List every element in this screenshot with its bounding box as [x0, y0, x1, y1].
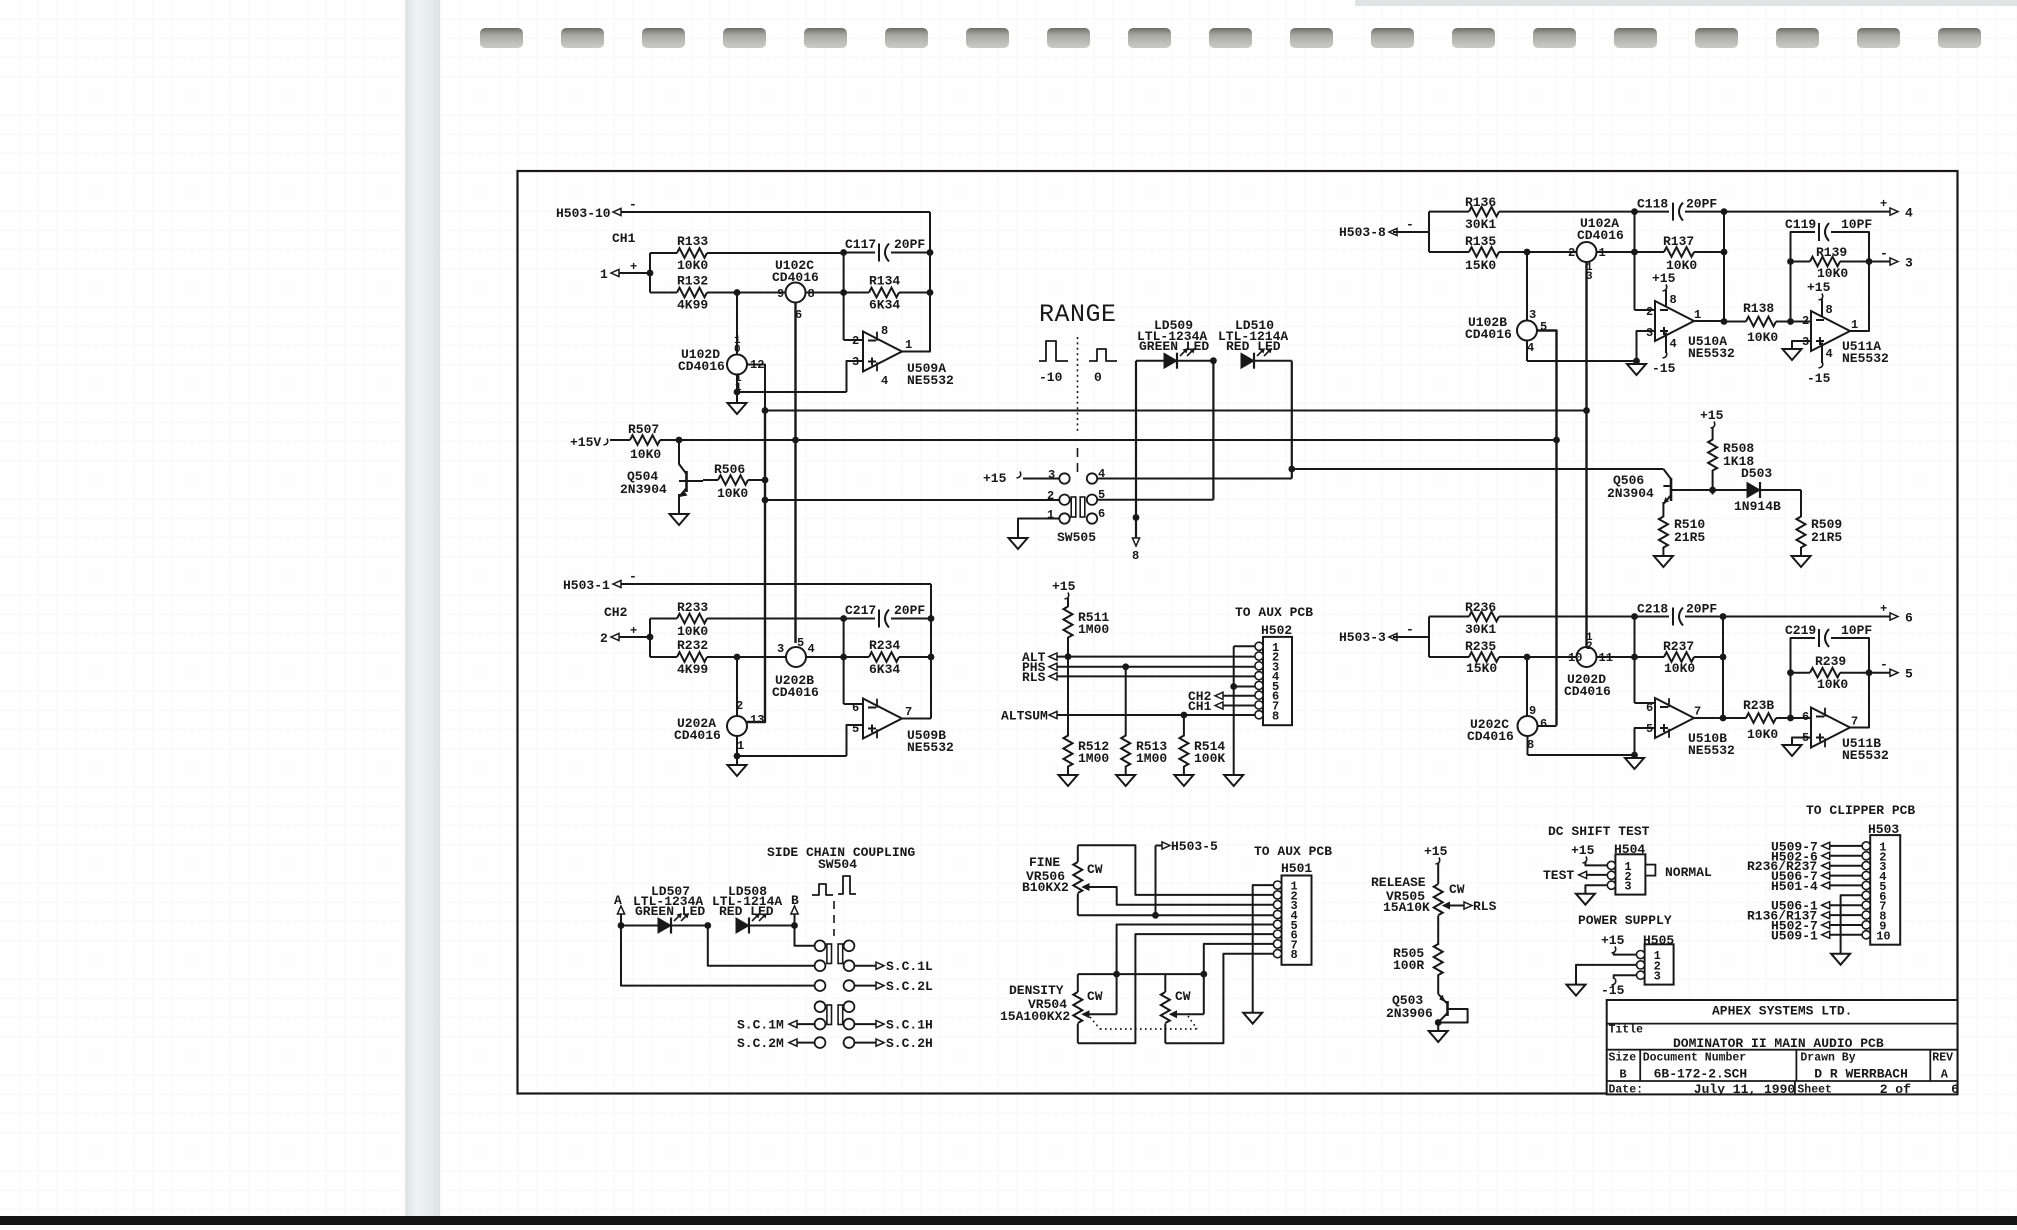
svg-text:3: 3 [1905, 256, 1913, 271]
svg-text:A: A [1941, 1068, 1949, 1082]
svg-text:S.C.2H: S.C.2H [886, 1036, 933, 1051]
svg-text:10K0: 10K0 [677, 624, 708, 639]
resistor R235 [1429, 639, 1527, 676]
junction R137 right [1721, 249, 1728, 256]
svg-text:S.C.2L: S.C.2L [886, 979, 933, 994]
junction C218 left [1631, 613, 1638, 620]
gang dotted link [1090, 1016, 1197, 1029]
net +15 H505 [1601, 933, 1625, 953]
svg-text:NE5532: NE5532 [1842, 351, 1889, 366]
wire U202C pin9 [1526, 657, 1528, 716]
junction +15 rail at U102C [792, 437, 799, 444]
svg-text:R232: R232 [677, 638, 708, 653]
svg-text:R137: R137 [1663, 234, 1694, 249]
LED LD507 [621, 913, 708, 934]
ground R512 [1059, 775, 1078, 786]
svg-text:5: 5 [797, 636, 804, 650]
wire U510B output [1694, 717, 1723, 719]
wire VR504 wiper [1090, 1013, 1117, 1015]
resistor R233 [650, 600, 844, 639]
svg-text:TO AUX PCB: TO AUX PCB [1254, 844, 1332, 859]
svg-text:7: 7 [905, 705, 912, 719]
junction C117 right [927, 249, 934, 256]
svg-text:1M00: 1M00 [1136, 751, 1167, 766]
wire H505 pin1 [1614, 952, 1638, 955]
svg-text:10: 10 [1876, 929, 1890, 943]
svg-text:H503-8: H503-8 [1339, 225, 1386, 240]
svg-text:-: - [1406, 622, 1414, 637]
output node 5 [1880, 657, 1913, 682]
svg-text:Date:: Date: [1609, 1084, 1644, 1097]
wire U202C pin8 to gnd wire [1527, 736, 1529, 756]
op-amp U510B [1646, 698, 1735, 758]
junction R239 left [1787, 669, 1794, 676]
input node 2 [600, 624, 650, 646]
svg-text:-15: -15 [1601, 983, 1625, 998]
wire U202C pin6 [1538, 725, 1557, 727]
junction A [618, 922, 625, 929]
LED LD510 [1241, 348, 1292, 369]
ground U511A [1783, 349, 1802, 360]
svg-text:+15: +15 [1700, 408, 1724, 423]
net R236/R237 [1747, 859, 1863, 874]
pulse symbol small [812, 884, 833, 895]
svg-text:10K0: 10K0 [1747, 330, 1778, 345]
svg-text:S.C.1L: S.C.1L [886, 959, 933, 974]
wire bus 410 [765, 410, 1587, 412]
ground H504 [1576, 894, 1595, 905]
svg-text:7: 7 [1851, 715, 1858, 729]
junction R234 left [840, 654, 847, 661]
svg-text:10K0: 10K0 [677, 258, 708, 273]
wire to output 3 [1869, 261, 1890, 263]
svg-text:FINE: FINE [1029, 855, 1060, 870]
wire H505 pin2 gnd [1576, 965, 1637, 985]
wire H502 pin1 [1234, 645, 1256, 647]
wire U102B pin5 [1537, 331, 1557, 726]
junction R237 left [1631, 654, 1638, 661]
junction R132/U102D [734, 289, 741, 296]
net S.C.1M [737, 1018, 815, 1033]
net H502-7 [1771, 918, 1863, 933]
svg-text:4: 4 [1527, 341, 1534, 355]
svg-text:2: 2 [852, 334, 859, 348]
junction C119 left leg [1787, 318, 1794, 325]
resistor R135 [1429, 234, 1527, 273]
svg-text:C217: C217 [845, 603, 876, 618]
capacitor C218 [1635, 602, 1724, 626]
svg-text:8: 8 [1272, 709, 1279, 723]
svg-text:5: 5 [1098, 488, 1105, 502]
svg-text:C118: C118 [1637, 197, 1668, 212]
svg-text:4: 4 [1905, 206, 1913, 221]
resistor R136 [1429, 195, 1635, 232]
svg-text:NE5532: NE5532 [907, 373, 954, 388]
ground U511B [1783, 745, 1802, 756]
svg-text:10K0: 10K0 [630, 447, 661, 462]
net CH1 to H502-7 [1188, 699, 1256, 714]
analog switch U202A [674, 699, 764, 753]
net U506-1 [1771, 899, 1863, 914]
wire noninv U511B [1792, 738, 1811, 746]
connector H502 [1255, 623, 1293, 725]
svg-text:B10KX2: B10KX2 [1022, 880, 1069, 895]
input node 1 [600, 260, 650, 282]
resistor R506 [703, 462, 765, 501]
wire ALTSUM-R514 vertical [1183, 715, 1185, 736]
svg-text:+15: +15 [1424, 844, 1448, 859]
svg-text:6: 6 [1905, 611, 1913, 626]
svg-text:H503-5: H503-5 [1171, 839, 1218, 854]
svg-text:+15: +15 [1052, 579, 1076, 594]
svg-text:+: + [630, 260, 637, 274]
svg-text:15K0: 15K0 [1465, 258, 1496, 273]
svg-text:1N914B: 1N914B [1734, 499, 1781, 514]
svg-text:R23B: R23B [1743, 698, 1774, 713]
wire C118 to inv input [1634, 212, 1636, 310]
net H503-3 label [1339, 622, 1414, 645]
svg-text:H502: H502 [1261, 623, 1292, 638]
junction Q506 base/R508 [1709, 487, 1716, 494]
analog switch U102B [1465, 308, 1547, 355]
svg-text:R507: R507 [628, 422, 659, 437]
svg-text:+15: +15 [1652, 271, 1676, 286]
wire D503 to R509 [1800, 490, 1802, 517]
svg-text:6K34: 6K34 [869, 662, 900, 677]
svg-text:R139: R139 [1816, 245, 1847, 260]
svg-text:NORMAL: NORMAL [1665, 865, 1712, 880]
svg-text:8: 8 [881, 324, 888, 338]
wire SW505 pin1 [1018, 519, 1060, 539]
wire H503 pin6 gnd [1841, 895, 1863, 953]
net -15 H505 [1601, 975, 1637, 998]
wire Q506 base [1671, 489, 1713, 491]
wire +15 rail [679, 439, 1557, 441]
wire H503-10 to feedback [621, 211, 930, 213]
wire U510A output [1694, 320, 1724, 322]
ground U510B [1625, 758, 1644, 769]
svg-text:8: 8 [1291, 948, 1298, 962]
wire U102D pin12 [747, 365, 765, 411]
resistor R237 [1635, 639, 1724, 676]
junction LD507/LD508 [704, 922, 711, 929]
svg-text:3: 3 [1624, 880, 1631, 894]
svg-text:-15: -15 [1652, 361, 1676, 376]
svg-text:2: 2 [600, 631, 608, 646]
resistor R137 [1635, 234, 1725, 273]
svg-text:8: 8 [808, 287, 815, 301]
wire noninv U510A [1637, 331, 1656, 361]
connector H505 [1637, 933, 1675, 985]
wire U202D out [1597, 656, 1635, 658]
svg-text:10PF: 10PF [1841, 217, 1872, 232]
svg-text:H501: H501 [1281, 861, 1312, 876]
resistor R238 [1723, 698, 1791, 742]
LED LD509 [1136, 348, 1213, 369]
wire H501 pin7 drop [1204, 944, 1274, 1014]
wire U102A in [1527, 251, 1577, 253]
ground H505 [1567, 985, 1586, 996]
wire U102C out [806, 292, 844, 294]
ground Q503 [1429, 1023, 1448, 1043]
junction R234 right [928, 654, 935, 661]
svg-text:RANGE: RANGE [1039, 300, 1117, 329]
wire input stub [649, 253, 651, 293]
wire ALT to H502-2 [1057, 656, 1256, 658]
wire U202B out [806, 656, 844, 658]
svg-text:4: 4 [1098, 467, 1105, 481]
svg-text:C218: C218 [1637, 602, 1668, 617]
junction bus A top [762, 407, 769, 414]
svg-text:-15: -15 [1807, 371, 1831, 386]
connector H504 [1607, 842, 1655, 895]
svg-text:20PF: 20PF [1686, 602, 1717, 617]
wire noninv U510B [1635, 728, 1656, 755]
wire PHS-R513 vertical [1125, 667, 1127, 737]
wire R138 to U511A [1791, 321, 1812, 323]
svg-text:21R5: 21R5 [1674, 530, 1705, 545]
ground U202A [728, 756, 747, 776]
wire SW505 pin4 [1097, 478, 1292, 480]
dashed divider lower [1077, 448, 1079, 476]
junction C219 left leg [1787, 715, 1794, 722]
svg-text:-10: -10 [1039, 370, 1063, 385]
wire H502 pin5 [1234, 686, 1256, 688]
svg-text:SW505: SW505 [1057, 530, 1096, 545]
svg-text:Title: Title [1609, 1024, 1644, 1037]
wire gnd to noninv [737, 391, 847, 393]
resistor R236 [1429, 600, 1635, 637]
ground R514 [1174, 775, 1193, 786]
LED LD507 labels [633, 884, 705, 919]
resistor R132 [650, 274, 786, 313]
junction U102D gnd [734, 389, 741, 396]
ground R510 [1654, 556, 1673, 567]
wire U102B pin3 [1526, 252, 1528, 321]
svg-text:20PF: 20PF [894, 237, 925, 252]
wire input stub 2 [649, 619, 651, 658]
svg-text:R136: R136 [1465, 195, 1496, 210]
wire U102A out [1597, 251, 1635, 253]
svg-text:H501-4: H501-4 [1771, 879, 1818, 894]
resistor R234 [844, 638, 931, 677]
junction R232/U202A [734, 654, 741, 661]
wire U102D bottom [736, 375, 738, 393]
junction C117 left [840, 249, 847, 256]
wire R511-R512 vertical [1067, 657, 1069, 737]
net +15V label [570, 435, 608, 450]
svg-text:S.C.2M: S.C.2M [737, 1036, 784, 1051]
svg-text:3: 3 [777, 642, 784, 656]
svg-text:R235: R235 [1465, 639, 1496, 654]
svg-text:10K0: 10K0 [1664, 661, 1695, 676]
capacitor C217 [844, 603, 931, 628]
svg-text:1: 1 [905, 338, 912, 352]
diode D503 [1713, 466, 1801, 514]
net H501-4 [1771, 879, 1863, 894]
svg-text:+15: +15 [983, 471, 1007, 486]
junction input 2 [647, 634, 654, 641]
net U509-1 [1771, 928, 1863, 943]
svg-text:21R5: 21R5 [1811, 530, 1842, 545]
svg-text:-: - [1406, 217, 1414, 232]
svg-text:10K0: 10K0 [1817, 677, 1848, 692]
svg-text:D R WERRBACH: D R WERRBACH [1814, 1067, 1908, 1082]
pot VR506 [1073, 845, 1103, 915]
junction U510A out [1721, 318, 1728, 325]
junction PHS/R513 [1122, 663, 1129, 670]
ground H502 [1224, 775, 1243, 786]
wire output to feedback [902, 293, 930, 352]
analog switch U202B [772, 636, 819, 700]
svg-text:+15V: +15V [570, 435, 601, 450]
svg-text:8: 8 [1527, 738, 1534, 752]
wire inv input U509B [844, 703, 863, 705]
svg-text:CD4016: CD4016 [1577, 228, 1624, 243]
svg-text:July 11, 1990: July 11, 1990 [1694, 1082, 1796, 1097]
svg-text:7: 7 [1694, 705, 1701, 719]
net S.C.1L [855, 959, 934, 974]
svg-text:2: 2 [1802, 314, 1809, 328]
wire LED left drop [1135, 361, 1137, 518]
svg-text:8: 8 [1132, 549, 1139, 563]
wire H502 gnd vertical [1233, 646, 1235, 775]
svg-text:R234: R234 [869, 638, 900, 653]
net +15 R511 [1052, 579, 1076, 599]
svg-text:Sheet: Sheet [1797, 1084, 1832, 1097]
wire SW505 pin5 [1097, 499, 1213, 501]
svg-text:S.C.1H: S.C.1H [886, 1018, 933, 1033]
ground U510A [1627, 364, 1646, 375]
svg-text:6: 6 [1098, 507, 1105, 521]
output node 3 [1880, 246, 1913, 271]
svg-text:C219: C219 [1785, 623, 1816, 638]
svg-text:4K99: 4K99 [677, 298, 708, 313]
resistor R134 [844, 274, 930, 313]
svg-text:DENSITY: DENSITY [1009, 983, 1064, 998]
svg-text:CD4016: CD4016 [674, 728, 721, 743]
resistor R510 [1659, 517, 1706, 557]
svg-text:R236: R236 [1465, 600, 1496, 615]
wire VR506 wiper to H501-3 [1090, 887, 1274, 905]
junction H503-5 drop [1152, 912, 1159, 919]
net R136/R137 [1747, 909, 1863, 924]
wire inv input U510B [1635, 702, 1656, 704]
svg-text:CW: CW [1175, 989, 1191, 1004]
svg-text:C117: C117 [845, 237, 876, 252]
wire U102B pin4 to gnd wire [1526, 341, 1528, 362]
pot VR504 second gang [1161, 974, 1191, 1043]
wire H503-1 to feedback [621, 583, 931, 585]
junction bus410 right end [1583, 407, 1590, 414]
net 8 down-arrow [1132, 518, 1140, 564]
capacitor C118 [1635, 197, 1725, 221]
svg-text:+: + [1880, 602, 1887, 616]
ground SW505 [1009, 538, 1028, 549]
wire output U509B to feedback [902, 718, 931, 720]
wire noninv input [847, 361, 864, 392]
capacitor C117 [844, 237, 930, 262]
dashed divider SW504 [833, 901, 835, 936]
svg-text:6: 6 [1802, 710, 1809, 724]
svg-text:CD4016: CD4016 [1465, 327, 1512, 342]
capacitor C219 [1785, 623, 1872, 718]
analog switch U202D [1564, 632, 1613, 699]
wire ALTSUM to H502-8 [1057, 714, 1256, 716]
wire VR506 top to H501-2 [1078, 845, 1274, 895]
svg-text:1: 1 [737, 739, 744, 753]
resistor R511 [1064, 598, 1110, 657]
svg-text:C119: C119 [1785, 217, 1816, 232]
svg-text:13: 13 [750, 713, 764, 727]
svg-text:H503-1: H503-1 [563, 578, 610, 593]
wire U202A pin13 [747, 500, 765, 722]
svg-text:S.C.1M: S.C.1M [737, 1018, 784, 1033]
wire H501 pin5 drop [1117, 925, 1274, 1015]
wire U202A bottom [736, 736, 738, 756]
svg-text:10K0: 10K0 [717, 486, 748, 501]
net S.C.2M [737, 1036, 815, 1051]
wire gnd to noninv 2 [737, 755, 847, 757]
svg-text:15A100KX2: 15A100KX2 [1000, 1009, 1070, 1024]
net +15 U511A [1807, 280, 1833, 320]
junction +15rail/U102B5 [1553, 437, 1560, 444]
wire LED mid drop [1212, 361, 1214, 500]
svg-text:6K34: 6K34 [869, 298, 900, 313]
wire C117-left to inv input [843, 253, 845, 341]
net PHS [1022, 660, 1057, 675]
switch SW504 [815, 940, 855, 1048]
wire B to SW504 row1 [795, 926, 815, 946]
wire H501 pin1 gnd [1253, 885, 1274, 1013]
resistor R514 [1179, 736, 1225, 776]
svg-text:1M00: 1M00 [1078, 622, 1109, 637]
svg-text:4: 4 [1826, 347, 1833, 361]
wire noninv U511A [1792, 341, 1811, 349]
svg-text:10K0: 10K0 [1817, 266, 1848, 281]
wire feedback right vertical [929, 212, 931, 331]
net U509-7 [1771, 839, 1863, 854]
wire C218 to inv input [1634, 617, 1636, 704]
svg-text:+15: +15 [1601, 933, 1625, 948]
junction ALTSUM/R514 [1181, 712, 1188, 719]
connector H501 [1273, 861, 1312, 965]
transistor Q506 [1607, 469, 1671, 517]
svg-text:R237: R237 [1663, 639, 1694, 654]
wire C118R-R137R-output vertical [1723, 212, 1725, 322]
svg-text:1: 1 [1694, 308, 1701, 322]
junction R139 right [1866, 258, 1873, 265]
junction busA wire500 [762, 497, 769, 504]
svg-text:20PF: 20PF [894, 603, 925, 618]
svg-text:NE5532: NE5532 [1688, 346, 1735, 361]
svg-text:9: 9 [1529, 704, 1536, 718]
svg-text:-: - [1880, 657, 1888, 672]
analog switch U102A [1568, 216, 1624, 283]
svg-text:Size: Size [1609, 1052, 1637, 1065]
svg-text:6: 6 [1540, 717, 1547, 731]
LED LD508 [736, 913, 795, 934]
dotted divider [1077, 337, 1079, 431]
analog switch U102D [678, 335, 764, 394]
svg-text:10PF: 10PF [1841, 623, 1872, 638]
op-amp U509A [852, 324, 954, 388]
net -15 U511A [1807, 343, 1833, 387]
svg-text:R506: R506 [714, 462, 745, 477]
output node 6 [1880, 602, 1913, 626]
svg-text:R233: R233 [677, 600, 708, 615]
svg-text:CH1: CH1 [1188, 699, 1212, 714]
